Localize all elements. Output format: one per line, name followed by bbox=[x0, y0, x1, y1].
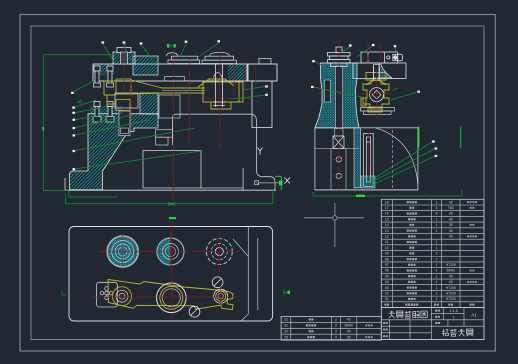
svg-text:20: 20 bbox=[284, 329, 288, 333]
svg-text:4: 4 bbox=[435, 269, 437, 273]
svg-text:02: 02 bbox=[385, 292, 389, 296]
svg-text:45: 45 bbox=[449, 200, 453, 204]
svg-text:10: 10 bbox=[385, 246, 389, 250]
svg-text:22: 22 bbox=[284, 318, 288, 322]
clamp screw pillar bbox=[374, 66, 380, 80]
svg-text:1: 1 bbox=[435, 217, 437, 221]
hatched bushing hole 1 bbox=[107, 236, 138, 267]
main title 夹具装配图 bbox=[389, 311, 395, 318]
grip marks bright green bbox=[42, 127, 44, 131]
svg-text:12: 12 bbox=[385, 235, 389, 239]
drill plate (钻模板) bbox=[93, 64, 248, 81]
svg-text:21: 21 bbox=[284, 324, 288, 328]
gusset wedge (hatched) bbox=[379, 64, 392, 78]
stud bolts lower pair bbox=[90, 106, 122, 114]
svg-text:09: 09 bbox=[385, 252, 389, 256]
svg-text:45: 45 bbox=[449, 229, 453, 233]
base right outline bbox=[173, 114, 276, 190]
pin slot with rod bbox=[364, 133, 374, 186]
svg-text:A1: A1 bbox=[471, 313, 477, 318]
rotation crosshair marker bbox=[304, 203, 364, 247]
svg-text:17: 17 bbox=[385, 206, 389, 210]
svg-text:2: 2 bbox=[435, 252, 437, 256]
svg-text:4: 4 bbox=[335, 335, 337, 339]
centerlines right view (red) bbox=[333, 40, 392, 192]
stepped cap left bbox=[167, 53, 200, 64]
svg-text:07: 07 bbox=[385, 263, 389, 267]
svg-text:04: 04 bbox=[385, 280, 389, 284]
main body column (hatched) bbox=[315, 63, 359, 128]
svg-text:2: 2 bbox=[435, 257, 437, 261]
svg-text:3: 3 bbox=[435, 206, 437, 210]
dimension line (right view) bbox=[313, 190, 462, 196]
bushing bolt bbox=[117, 48, 131, 53]
parts list table bbox=[381, 199, 484, 307]
bolt holes bbox=[336, 157, 341, 162]
svg-text:08: 08 bbox=[385, 257, 389, 261]
centerlines left view (red) bbox=[124, 44, 256, 200]
svg-text:13: 13 bbox=[385, 229, 389, 233]
clamp base steps bbox=[361, 108, 395, 112]
B-B label bbox=[167, 44, 176, 48]
parts table text bbox=[384, 200, 477, 305]
title block small labels bbox=[435, 310, 437, 312]
workpiece left locator plate bbox=[97, 282, 118, 307]
supplementary parts table bbox=[281, 317, 381, 341]
drill bushing cylinder (side) bbox=[361, 52, 403, 63]
svg-text:15: 15 bbox=[385, 217, 389, 221]
part number balloons (white squares) bbox=[71, 40, 437, 170]
svg-text:1:1.5: 1:1.5 bbox=[450, 309, 458, 313]
svg-text:45: 45 bbox=[347, 318, 351, 322]
svg-text:11: 11 bbox=[385, 240, 389, 244]
svg-text:1: 1 bbox=[435, 200, 437, 204]
svg-text:T8A: T8A bbox=[448, 206, 455, 210]
svg-text:45: 45 bbox=[449, 274, 453, 278]
slider block bbox=[115, 93, 138, 108]
clamp screw bbox=[213, 64, 225, 107]
svg-text:35: 35 bbox=[347, 335, 351, 339]
clamp screw inner dome bbox=[214, 73, 223, 78]
svg-text:45: 45 bbox=[449, 280, 453, 284]
column center bolt hole bbox=[336, 66, 343, 128]
svg-text:HT200: HT200 bbox=[446, 286, 456, 290]
svg-text:2: 2 bbox=[335, 318, 337, 322]
svg-text:65Mn: 65Mn bbox=[447, 269, 456, 273]
stepped cap right bbox=[202, 52, 237, 63]
section tick right of plan bbox=[284, 289, 289, 295]
pedestal inside plate bbox=[165, 77, 185, 81]
hole 3 rings bbox=[206, 239, 232, 265]
nut box bbox=[333, 136, 344, 149]
svg-text:01: 01 bbox=[385, 297, 389, 301]
svg-text:18: 18 bbox=[385, 200, 389, 204]
clamp lever (yellow) bbox=[104, 79, 243, 109]
svg-text:2: 2 bbox=[435, 292, 437, 296]
scale and qty text bbox=[450, 309, 477, 319]
svg-text:8: 8 bbox=[435, 212, 437, 216]
axis label X bbox=[285, 178, 291, 184]
svg-text:03: 03 bbox=[385, 286, 389, 290]
svg-text:HT200: HT200 bbox=[446, 263, 456, 267]
svg-text:1: 1 bbox=[435, 286, 437, 290]
slot above nut box bbox=[335, 129, 344, 137]
right end bracket bbox=[247, 64, 277, 81]
slash circle marks bbox=[212, 277, 223, 288]
stud bolts upper pair bbox=[94, 66, 100, 71]
body slot white bbox=[325, 80, 331, 102]
title block bbox=[381, 308, 484, 340]
svg-text:1: 1 bbox=[435, 246, 437, 250]
X grip (bright green) bbox=[279, 181, 283, 186]
svg-text:1: 1 bbox=[435, 297, 437, 301]
leader lines (green) bbox=[43, 43, 434, 197]
base lower body outline bbox=[315, 128, 418, 190]
inner sheet border bbox=[31, 26, 484, 340]
clamp assembly (yellow) bbox=[361, 73, 389, 113]
svg-text:1: 1 bbox=[435, 223, 437, 227]
svg-text:1: 1 bbox=[435, 263, 437, 267]
centerlines plan view (red) bbox=[92, 221, 242, 318]
drawing name 钻床夹具 bbox=[442, 329, 448, 336]
dimension line 342 (left view) bbox=[66, 190, 273, 204]
drill bushing holder (hatched) bbox=[113, 52, 135, 64]
washer stack bolt bbox=[328, 47, 351, 67]
svg-text:1: 1 bbox=[453, 315, 455, 319]
svg-text:35: 35 bbox=[449, 223, 453, 227]
left view: fixture front section B-B bbox=[65, 48, 290, 191]
svg-text:1: 1 bbox=[435, 240, 437, 244]
svg-text:4: 4 bbox=[435, 280, 437, 284]
svg-text:HT200: HT200 bbox=[446, 297, 456, 301]
svg-text:1: 1 bbox=[435, 274, 437, 278]
body slot with lever screw bbox=[119, 111, 130, 136]
clamp dome bbox=[366, 80, 386, 85]
section tick left of plan bbox=[62, 290, 66, 295]
section label A-A (plan top) bbox=[169, 217, 176, 219]
workpiece outline (yellow) bbox=[108, 280, 233, 310]
svg-text:35: 35 bbox=[449, 212, 453, 216]
plan outline bbox=[69, 227, 273, 322]
svg-text:05: 05 bbox=[385, 274, 389, 278]
base cavity slot bbox=[143, 151, 201, 189]
half-sectioned bushing hole 2 bbox=[157, 238, 184, 265]
svg-text:HT200: HT200 bbox=[446, 292, 456, 296]
svg-text:06: 06 bbox=[385, 269, 389, 273]
svg-text:14: 14 bbox=[385, 223, 389, 227]
svg-text:45: 45 bbox=[449, 217, 453, 221]
fixture body left section (hatched) bbox=[70, 114, 158, 190]
hatched strip right of column bbox=[354, 128, 361, 188]
svg-text:19: 19 bbox=[284, 335, 288, 339]
right view: fixture side section bbox=[315, 47, 418, 190]
svg-text:345: 345 bbox=[168, 201, 176, 207]
center column (hatched) bbox=[140, 93, 158, 114]
svg-text:2: 2 bbox=[435, 229, 437, 233]
svg-text:2: 2 bbox=[335, 329, 337, 333]
svg-text:45: 45 bbox=[449, 235, 453, 239]
svg-text:2: 2 bbox=[335, 324, 337, 328]
plan view (top view) bbox=[69, 227, 273, 322]
plate side view bbox=[353, 63, 406, 79]
svg-text:45: 45 bbox=[347, 329, 351, 333]
base plate bottom bbox=[65, 189, 276, 191]
svg-text:65Mn: 65Mn bbox=[344, 324, 353, 328]
axis label Y bbox=[258, 148, 263, 155]
svg-text:16: 16 bbox=[385, 212, 389, 216]
